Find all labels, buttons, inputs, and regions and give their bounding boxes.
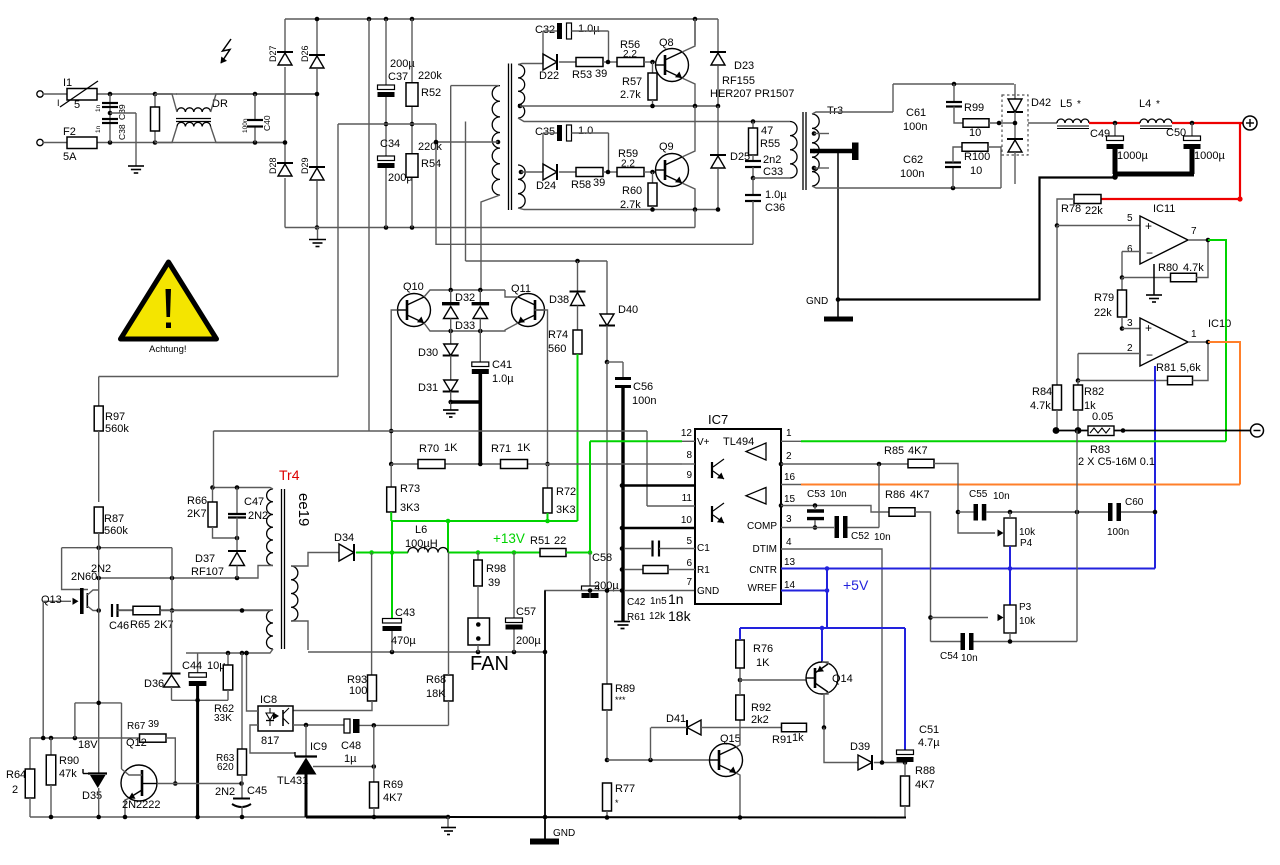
svg-text:R58: R58 bbox=[571, 179, 591, 191]
svg-text:4K7: 4K7 bbox=[383, 792, 403, 804]
svg-text:IC7: IC7 bbox=[708, 412, 728, 427]
svg-text:C34: C34 bbox=[380, 138, 400, 150]
svg-text:C57: C57 bbox=[516, 606, 536, 618]
svg-text:R90: R90 bbox=[59, 755, 79, 767]
svg-text:16: 16 bbox=[784, 472, 796, 483]
svg-text:3K3: 3K3 bbox=[556, 504, 576, 516]
svg-text:4: 4 bbox=[786, 537, 792, 548]
svg-text:C42: C42 bbox=[627, 597, 646, 608]
svg-text:10k: 10k bbox=[1019, 527, 1036, 538]
svg-text:ee19: ee19 bbox=[295, 493, 312, 526]
svg-text:−: − bbox=[1146, 246, 1153, 260]
svg-text:C44: C44 bbox=[182, 660, 202, 672]
svg-text:220k: 220k bbox=[418, 141, 442, 153]
svg-text:R88: R88 bbox=[915, 765, 935, 777]
svg-text:C38: C38 bbox=[117, 124, 127, 140]
svg-text:CNTR: CNTR bbox=[749, 565, 777, 576]
svg-text:15: 15 bbox=[784, 494, 796, 505]
svg-text:1000µ: 1000µ bbox=[1117, 150, 1148, 162]
svg-text:2 X C5-16M 0.1: 2 X C5-16M 0.1 bbox=[1078, 456, 1155, 468]
svg-text:R69: R69 bbox=[383, 779, 403, 791]
svg-text:4K7: 4K7 bbox=[908, 445, 928, 457]
svg-text:D42: D42 bbox=[1031, 97, 1051, 109]
svg-text:R65: R65 bbox=[130, 619, 150, 631]
svg-text:10: 10 bbox=[969, 127, 981, 139]
svg-text:8: 8 bbox=[686, 450, 692, 461]
svg-text:817: 817 bbox=[261, 735, 279, 747]
svg-text:D26: D26 bbox=[300, 45, 310, 62]
svg-text:12: 12 bbox=[681, 428, 693, 439]
svg-text:Q12: Q12 bbox=[126, 737, 147, 749]
svg-text:22k: 22k bbox=[1094, 307, 1112, 319]
svg-text:39: 39 bbox=[593, 177, 605, 189]
svg-text:C36: C36 bbox=[765, 202, 785, 214]
svg-text:R67: R67 bbox=[127, 721, 146, 732]
svg-text:D27: D27 bbox=[268, 45, 278, 62]
svg-text:R89: R89 bbox=[615, 683, 635, 695]
svg-text:6: 6 bbox=[1127, 244, 1133, 255]
svg-text:P4: P4 bbox=[1020, 538, 1033, 549]
svg-text:3: 3 bbox=[786, 514, 792, 525]
svg-text:R61: R61 bbox=[627, 612, 646, 623]
svg-text:Tr4: Tr4 bbox=[279, 467, 300, 483]
svg-text:1.0: 1.0 bbox=[578, 125, 593, 137]
svg-text:C47: C47 bbox=[244, 496, 264, 508]
svg-text:2.2: 2.2 bbox=[623, 49, 637, 60]
svg-text:1K: 1K bbox=[756, 657, 770, 669]
svg-text:560: 560 bbox=[548, 343, 566, 355]
svg-text:2: 2 bbox=[786, 451, 792, 462]
svg-text:10n: 10n bbox=[830, 489, 847, 500]
svg-text:2: 2 bbox=[12, 784, 18, 796]
svg-text:***: *** bbox=[615, 695, 626, 705]
svg-text:RF155: RF155 bbox=[722, 75, 755, 87]
svg-text:R64: R64 bbox=[6, 769, 26, 781]
svg-text:18K: 18K bbox=[426, 688, 446, 700]
svg-text:D40: D40 bbox=[618, 304, 638, 316]
svg-text:R68: R68 bbox=[426, 674, 446, 686]
svg-text:GND: GND bbox=[806, 296, 828, 307]
svg-text:C60: C60 bbox=[1125, 497, 1144, 508]
svg-text:IC8: IC8 bbox=[260, 694, 277, 706]
svg-text:6: 6 bbox=[686, 558, 692, 569]
svg-text:C62: C62 bbox=[903, 154, 923, 166]
svg-text:100n: 100n bbox=[903, 121, 927, 133]
svg-text:R99: R99 bbox=[964, 102, 984, 114]
svg-text:C58: C58 bbox=[592, 552, 612, 564]
svg-text:IC10: IC10 bbox=[1208, 318, 1231, 330]
svg-text:2: 2 bbox=[1127, 343, 1133, 354]
svg-text:2N2: 2N2 bbox=[248, 510, 268, 522]
svg-text:R77: R77 bbox=[615, 783, 635, 795]
svg-text:R83: R83 bbox=[1090, 444, 1110, 456]
svg-text:22k: 22k bbox=[1085, 205, 1103, 217]
svg-text:C43: C43 bbox=[395, 607, 415, 619]
svg-text:47k: 47k bbox=[59, 768, 77, 780]
svg-text:D28: D28 bbox=[268, 157, 278, 174]
svg-text:39: 39 bbox=[488, 577, 500, 589]
svg-text:0.05: 0.05 bbox=[1092, 411, 1113, 423]
svg-text:470µ: 470µ bbox=[391, 635, 416, 647]
svg-text:R91: R91 bbox=[772, 734, 792, 746]
svg-text:D22: D22 bbox=[539, 70, 559, 82]
svg-text:3K3: 3K3 bbox=[400, 502, 420, 514]
svg-text:D38: D38 bbox=[549, 294, 569, 306]
svg-text:620: 620 bbox=[217, 762, 234, 773]
svg-text:C51: C51 bbox=[919, 724, 939, 736]
svg-text:D36: D36 bbox=[144, 678, 164, 690]
svg-text:R57: R57 bbox=[622, 76, 642, 88]
svg-text:100n: 100n bbox=[242, 118, 249, 133]
svg-text:D33: D33 bbox=[455, 320, 475, 332]
svg-text:3: 3 bbox=[1127, 318, 1133, 329]
svg-text:C32: C32 bbox=[535, 24, 555, 36]
svg-text:1n5: 1n5 bbox=[650, 596, 667, 607]
svg-text:22: 22 bbox=[554, 535, 566, 547]
svg-text:R80: R80 bbox=[1158, 262, 1178, 274]
svg-text:R86: R86 bbox=[885, 489, 905, 501]
svg-text:1K: 1K bbox=[444, 442, 458, 454]
svg-text:C46: C46 bbox=[109, 620, 129, 632]
svg-text:1.0µ: 1.0µ bbox=[765, 189, 787, 201]
svg-text:2.2: 2.2 bbox=[621, 159, 635, 170]
svg-text:IC9: IC9 bbox=[310, 741, 327, 753]
svg-text:R70: R70 bbox=[419, 443, 439, 455]
svg-text:5,6k: 5,6k bbox=[1180, 362, 1201, 374]
svg-text:4K7: 4K7 bbox=[910, 489, 930, 501]
svg-text:Q14: Q14 bbox=[832, 673, 853, 685]
svg-text:I1: I1 bbox=[63, 77, 72, 89]
svg-text:1.0µ: 1.0µ bbox=[492, 373, 514, 385]
svg-text:7: 7 bbox=[1191, 226, 1197, 237]
svg-text:5A: 5A bbox=[63, 151, 77, 163]
svg-text:TL431: TL431 bbox=[277, 775, 308, 787]
svg-text:R1: R1 bbox=[697, 565, 710, 576]
svg-text:100n: 100n bbox=[1107, 527, 1129, 538]
svg-text:Q10: Q10 bbox=[403, 281, 424, 293]
svg-text:F2: F2 bbox=[63, 126, 76, 138]
svg-text:14: 14 bbox=[784, 580, 796, 591]
svg-text:D23: D23 bbox=[734, 60, 754, 72]
svg-text:C1: C1 bbox=[697, 543, 710, 554]
svg-text:C48: C48 bbox=[341, 740, 361, 752]
svg-text:+5V: +5V bbox=[843, 577, 869, 593]
svg-text:39: 39 bbox=[595, 68, 607, 80]
svg-text:R55: R55 bbox=[760, 138, 780, 150]
svg-text:4.7k: 4.7k bbox=[1183, 262, 1204, 274]
svg-text:*: * bbox=[1077, 99, 1081, 110]
svg-text:560k: 560k bbox=[104, 525, 128, 537]
svg-text:33K: 33K bbox=[214, 713, 232, 724]
svg-text:R97: R97 bbox=[105, 411, 125, 423]
svg-text:C55: C55 bbox=[969, 489, 988, 500]
svg-text:18k: 18k bbox=[668, 608, 692, 624]
svg-text:RF107: RF107 bbox=[191, 566, 224, 578]
svg-text:10n: 10n bbox=[993, 491, 1010, 502]
svg-text:100: 100 bbox=[349, 685, 367, 697]
svg-text:12k: 12k bbox=[649, 611, 666, 622]
svg-text:+13V: +13V bbox=[493, 531, 525, 546]
svg-text:R100: R100 bbox=[964, 151, 990, 163]
svg-text:R54: R54 bbox=[421, 158, 441, 170]
svg-text:L5: L5 bbox=[1060, 98, 1072, 110]
svg-text:10: 10 bbox=[681, 515, 693, 526]
svg-text:R98: R98 bbox=[486, 563, 506, 575]
svg-text:2K7: 2K7 bbox=[154, 619, 174, 631]
svg-text:7: 7 bbox=[686, 577, 692, 588]
svg-text:1K: 1K bbox=[517, 442, 531, 454]
svg-text:4.7µ: 4.7µ bbox=[918, 737, 940, 749]
svg-text:D31: D31 bbox=[418, 382, 438, 394]
svg-text:10n: 10n bbox=[874, 532, 891, 543]
svg-text:2.7k: 2.7k bbox=[620, 199, 641, 211]
svg-text:R71: R71 bbox=[491, 443, 511, 455]
svg-text:R92: R92 bbox=[751, 702, 771, 714]
svg-text:10: 10 bbox=[970, 165, 982, 177]
svg-text:C45: C45 bbox=[247, 785, 267, 797]
svg-text:C61: C61 bbox=[906, 107, 926, 119]
svg-text:GND: GND bbox=[697, 586, 719, 597]
svg-text:R72: R72 bbox=[556, 486, 576, 498]
svg-text:+: + bbox=[1145, 321, 1152, 335]
svg-text:R66: R66 bbox=[187, 495, 207, 507]
svg-text:D37: D37 bbox=[195, 553, 215, 565]
svg-text:*: * bbox=[1156, 99, 1160, 110]
svg-text:5: 5 bbox=[1127, 213, 1133, 224]
svg-text:1n: 1n bbox=[95, 104, 102, 112]
svg-text:1: 1 bbox=[1191, 329, 1197, 340]
svg-text:R51: R51 bbox=[530, 535, 550, 547]
svg-text:C37: C37 bbox=[388, 71, 408, 83]
svg-text:D32: D32 bbox=[455, 292, 475, 304]
svg-text:100n: 100n bbox=[632, 395, 656, 407]
svg-text:2k2: 2k2 bbox=[751, 714, 769, 726]
svg-text:1k: 1k bbox=[792, 732, 804, 744]
svg-text:R73: R73 bbox=[400, 483, 420, 495]
svg-text:5: 5 bbox=[686, 536, 692, 547]
svg-text:C54: C54 bbox=[940, 651, 959, 662]
svg-text:R60: R60 bbox=[622, 185, 642, 197]
svg-text:2K7: 2K7 bbox=[187, 508, 207, 520]
svg-text:13: 13 bbox=[784, 557, 796, 568]
svg-text:WREF: WREF bbox=[748, 583, 777, 594]
svg-text:+: + bbox=[1145, 219, 1152, 233]
svg-text:220k: 220k bbox=[418, 70, 442, 82]
svg-text:9: 9 bbox=[686, 470, 692, 481]
svg-text:D34: D34 bbox=[334, 532, 354, 544]
svg-text:2n2: 2n2 bbox=[763, 154, 781, 166]
svg-text:*: * bbox=[615, 798, 619, 808]
svg-text:L6: L6 bbox=[415, 524, 427, 536]
svg-text:1µ: 1µ bbox=[344, 753, 357, 765]
svg-text:D30: D30 bbox=[418, 347, 438, 359]
svg-text:39: 39 bbox=[148, 719, 160, 730]
svg-text:2N2: 2N2 bbox=[215, 786, 235, 798]
svg-text:R74: R74 bbox=[548, 329, 568, 341]
svg-text:C33: C33 bbox=[763, 166, 783, 178]
svg-text:47: 47 bbox=[761, 125, 773, 137]
svg-text:D29: D29 bbox=[300, 157, 310, 174]
svg-text:L4: L4 bbox=[1139, 98, 1151, 110]
svg-text:C35: C35 bbox=[535, 126, 555, 138]
svg-text:R82: R82 bbox=[1084, 386, 1104, 398]
svg-text:R84: R84 bbox=[1032, 386, 1052, 398]
svg-text:C56: C56 bbox=[633, 381, 653, 393]
svg-text:1: 1 bbox=[786, 428, 792, 439]
svg-text:HER207 PR1507: HER207 PR1507 bbox=[710, 88, 794, 100]
svg-text:10k: 10k bbox=[1019, 616, 1036, 627]
svg-text:Q9: Q9 bbox=[659, 141, 674, 153]
svg-text:P3: P3 bbox=[1019, 602, 1032, 613]
svg-text:R79: R79 bbox=[1094, 292, 1114, 304]
svg-text:DTIM: DTIM bbox=[753, 544, 777, 555]
svg-text:R78: R78 bbox=[1061, 203, 1081, 215]
svg-text:2N2: 2N2 bbox=[91, 563, 111, 575]
svg-text:V+: V+ bbox=[697, 437, 710, 448]
svg-text:TL494: TL494 bbox=[723, 436, 754, 448]
svg-text:1000µ: 1000µ bbox=[1194, 150, 1225, 162]
svg-text:R81: R81 bbox=[1156, 362, 1176, 374]
svg-text:200µ: 200µ bbox=[516, 635, 541, 647]
svg-text:C40: C40 bbox=[262, 115, 272, 131]
svg-text:R85: R85 bbox=[884, 445, 904, 457]
svg-text:1n: 1n bbox=[668, 591, 684, 607]
svg-text:2.7k: 2.7k bbox=[620, 89, 641, 101]
svg-text:Tr3: Tr3 bbox=[827, 105, 843, 117]
svg-text:D39: D39 bbox=[850, 741, 870, 753]
svg-text:IC11: IC11 bbox=[1153, 203, 1175, 215]
svg-text:1.0µ: 1.0µ bbox=[578, 23, 600, 35]
svg-text:C41: C41 bbox=[492, 359, 512, 371]
svg-text:−: − bbox=[1146, 348, 1153, 362]
svg-text:Q11: Q11 bbox=[511, 283, 531, 295]
svg-text:2N2222: 2N2222 bbox=[122, 799, 161, 811]
svg-text:C39: C39 bbox=[117, 104, 127, 120]
svg-text:C52: C52 bbox=[851, 531, 870, 542]
svg-text:I: I bbox=[57, 98, 60, 108]
svg-text:R87: R87 bbox=[104, 513, 124, 525]
svg-text:10n: 10n bbox=[961, 653, 978, 664]
svg-text:GND: GND bbox=[553, 828, 575, 839]
svg-text:1n: 1n bbox=[95, 125, 102, 133]
svg-text:4K7: 4K7 bbox=[915, 779, 935, 791]
svg-text:D24: D24 bbox=[536, 180, 556, 192]
svg-text:Q15: Q15 bbox=[720, 733, 741, 745]
svg-text:Achtung!: Achtung! bbox=[149, 344, 187, 355]
svg-text:18V: 18V bbox=[78, 739, 98, 751]
svg-text:R53: R53 bbox=[572, 69, 592, 81]
svg-text:R52: R52 bbox=[421, 87, 441, 99]
svg-text:11: 11 bbox=[682, 493, 693, 504]
svg-text:5: 5 bbox=[74, 99, 80, 111]
svg-text:FAN: FAN bbox=[470, 653, 509, 675]
svg-text:560k: 560k bbox=[105, 423, 129, 435]
svg-text:4.7k: 4.7k bbox=[1030, 400, 1051, 412]
svg-text:100n: 100n bbox=[900, 168, 924, 180]
svg-text:C53: C53 bbox=[807, 489, 826, 500]
svg-text:COMP: COMP bbox=[747, 521, 777, 532]
svg-text:D41: D41 bbox=[666, 713, 686, 725]
svg-text:Q8: Q8 bbox=[659, 37, 674, 49]
svg-text:R76: R76 bbox=[753, 643, 773, 655]
svg-text:Q13: Q13 bbox=[41, 594, 62, 606]
